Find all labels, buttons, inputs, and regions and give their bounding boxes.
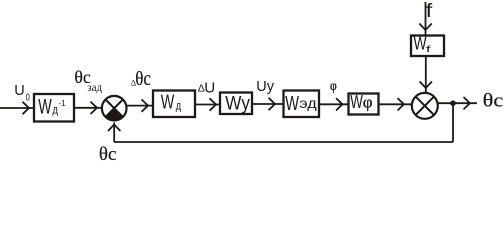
wire summer 1 to block Wd <box>127 105 153 107</box>
summer 1 circle <box>102 96 127 121</box>
label W of block Wphi <box>350 92 363 113</box>
svg-text:W: W <box>161 90 175 113</box>
summer 1 cross diagonal 1 <box>106 100 123 117</box>
block Wd-1 <box>34 94 74 122</box>
arrowhead into block Wed <box>269 98 276 110</box>
svg-text:эд: эд <box>299 97 317 111</box>
arrowhead into summer 2 <box>398 98 405 110</box>
arrowhead f into block Wf <box>419 24 431 31</box>
label W of block Wd <box>161 90 175 113</box>
label theta-c of delta-theta-c <box>135 68 151 91</box>
label W of block Wed <box>285 92 299 115</box>
subscript f of block Wf <box>426 44 431 54</box>
svg-text:W: W <box>38 95 52 118</box>
wire block Wu to block Wed <box>252 103 284 105</box>
svg-text:φ: φ <box>363 93 373 112</box>
wire feedback up into summer 1 <box>113 123 115 143</box>
block Wd <box>153 91 195 118</box>
label theta-c output <box>483 89 504 111</box>
label W of block Wd-1 <box>38 95 52 118</box>
arrowhead into summer 1 <box>91 102 98 114</box>
wire f input <box>425 2 427 36</box>
svg-text:0: 0 <box>26 91 30 102</box>
label W of block Wf <box>414 34 428 54</box>
label f <box>426 0 433 21</box>
subscript d of block Wd <box>176 101 181 113</box>
node dot after summer 2 <box>450 100 456 106</box>
summer 1 cross diagonal 2 <box>106 100 123 117</box>
svg-text:W: W <box>285 92 299 115</box>
wire block Wphi to summer 2 <box>379 103 412 105</box>
wire input U0 <box>0 107 34 109</box>
svg-text:W: W <box>350 92 363 113</box>
wire block Wd to block Wu <box>195 104 220 106</box>
svg-text:θс: θс <box>99 144 116 162</box>
svg-text:f: f <box>426 0 433 21</box>
arrowhead into block Wphi <box>336 98 343 110</box>
arrowhead into block Wd <box>142 99 149 111</box>
arrowhead feedback into summer 1 <box>108 125 120 132</box>
summer 2 cross diagonal 2 <box>416 97 434 115</box>
svg-text:Uу: Uу <box>256 79 274 95</box>
svg-text:f: f <box>426 44 431 54</box>
label theta-c feedback <box>99 144 116 165</box>
svg-text:д: д <box>176 101 181 113</box>
subscript d of block Wd-1 <box>52 104 58 117</box>
svg-text:-1: -1 <box>58 98 66 108</box>
wire block Wd-1 to summer 1 <box>74 107 102 109</box>
summer 2 cross diagonal 1 <box>416 97 434 115</box>
svg-text:Wу: Wу <box>225 93 250 114</box>
arrowhead into block Wd-1 <box>23 102 30 114</box>
svg-text:U: U <box>14 83 24 99</box>
block Wu <box>220 93 252 115</box>
arrowhead into summer 2 from top <box>420 82 432 89</box>
svg-text:θс: θс <box>483 89 504 111</box>
block Wed <box>284 91 320 118</box>
svg-text:U: U <box>204 79 215 96</box>
label Wu of block Wu <box>225 93 250 114</box>
svg-text:θс: θс <box>135 68 151 91</box>
label ed of block Wed <box>299 97 317 111</box>
summer 1 filled bottom quadrant <box>106 108 123 120</box>
wire block Wf to summer 2 <box>425 56 427 93</box>
block Wf <box>411 36 444 57</box>
wire feedback bottom <box>114 141 453 143</box>
arrowhead into block Wu <box>210 98 217 110</box>
wire feedback down from node <box>452 103 454 142</box>
wire summer 2 to output <box>438 102 477 104</box>
svg-text:φ: φ <box>330 78 337 93</box>
svg-text:зад: зад <box>87 82 102 94</box>
arrowhead output <box>464 97 471 109</box>
block Wphi <box>349 94 379 115</box>
label phi <box>330 78 337 93</box>
wire block Wed to block Wphi <box>319 103 349 105</box>
summer 2 circle <box>412 93 438 119</box>
